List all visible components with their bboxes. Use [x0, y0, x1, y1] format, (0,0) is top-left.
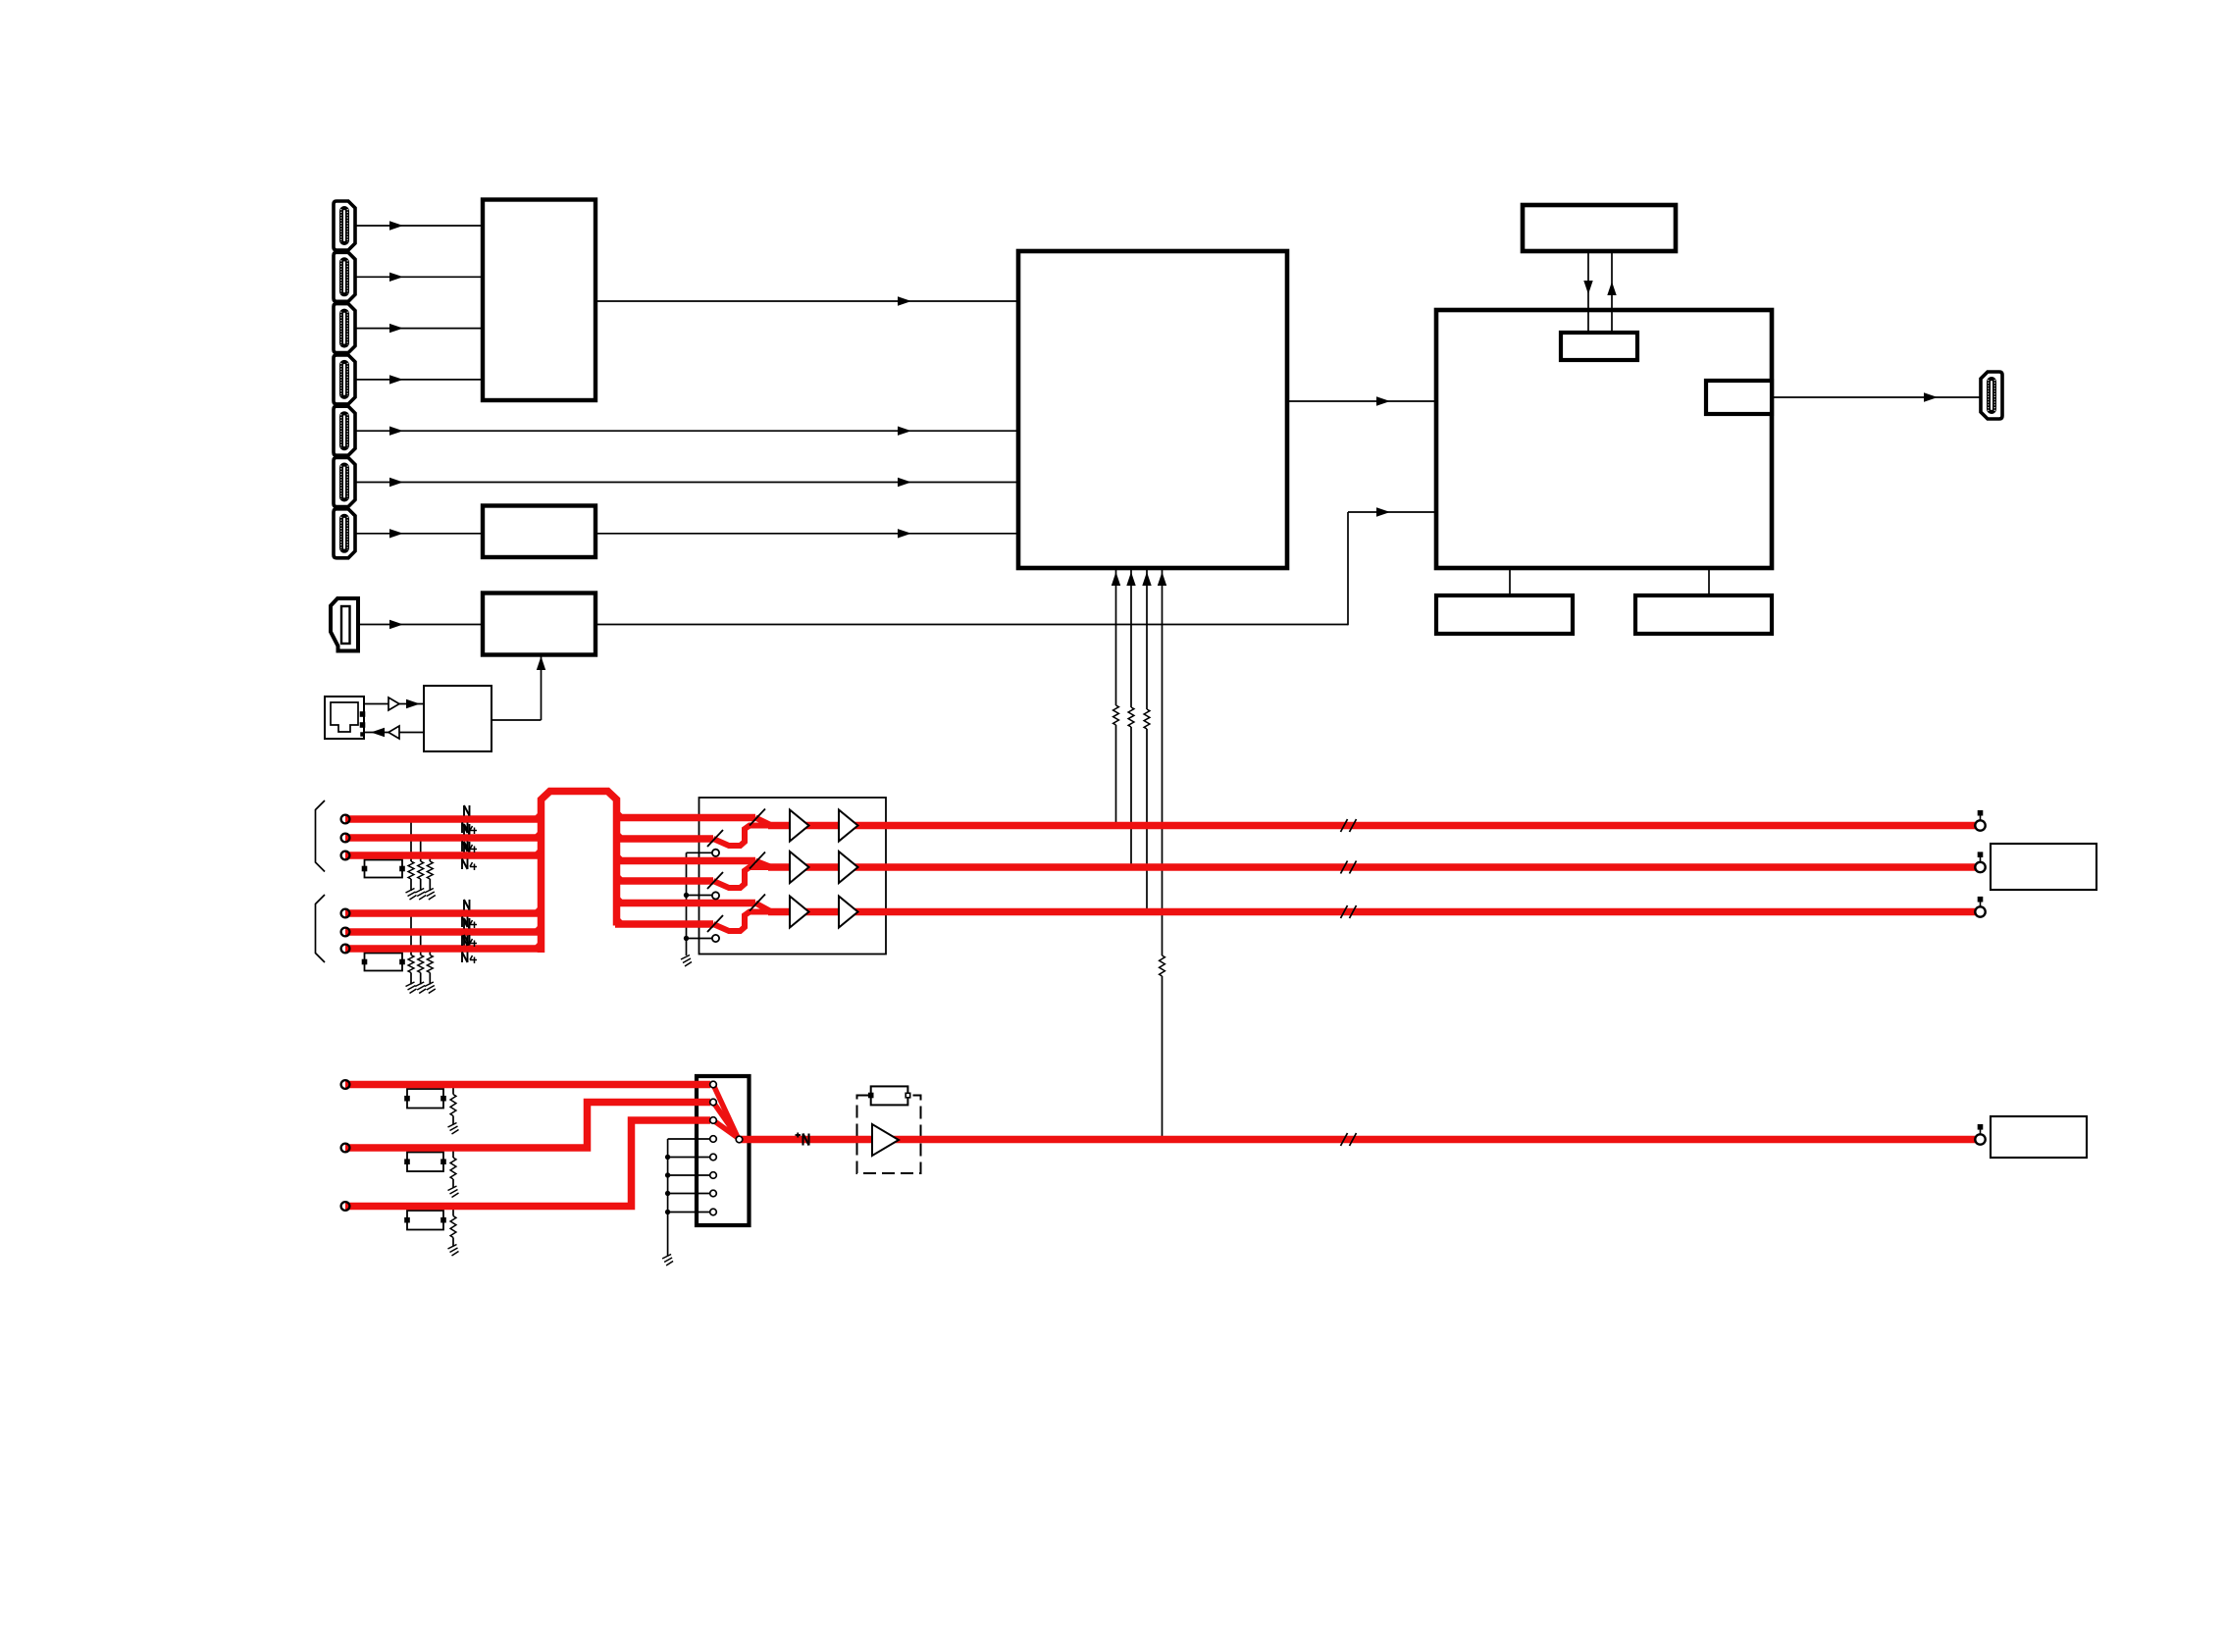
interface sub-block inside U4: [1561, 333, 1637, 360]
ferrite marks on input lines: [463, 805, 465, 816]
buffer U7b: [388, 726, 399, 739]
main video processor U3: [1018, 251, 1287, 568]
panel controller U4: [1436, 310, 1772, 568]
wire HDMI CN5 to block: [355, 430, 1018, 432]
wire U6 to buffer: [399, 732, 424, 734]
red output line (lower): [740, 1136, 1976, 1144]
red bus outputs right: [615, 814, 755, 822]
memory MEM1: [1436, 595, 1573, 634]
CN11 signal pin 2: [710, 1099, 717, 1106]
test point TP2: [1975, 862, 1985, 872]
buffer array box U8: [699, 798, 887, 955]
equalizer block U2: [483, 506, 595, 558]
CN11 ground pin 1: [710, 1136, 717, 1143]
termination cluster group2 (FB2,R8-R10): [365, 954, 403, 971]
HDMI connector CN8: [331, 598, 358, 651]
wire U4 to CN9: [1772, 396, 1981, 398]
memory MEM2: [1635, 595, 1772, 634]
red switch SW1 contacts: [755, 818, 772, 826]
HDMI connector CN2: [334, 252, 355, 301]
ferrite mark lower line: [796, 1134, 802, 1136]
test point TP3: [1975, 906, 1985, 916]
buffer triangle U9: [872, 1124, 899, 1156]
CN11 ground pin 4: [710, 1190, 717, 1197]
CN11 signal pin 3: [710, 1117, 717, 1124]
group bracket 2: [316, 895, 326, 962]
input terminal circle 3: [341, 852, 350, 860]
lower input terminal circle 2: [341, 1144, 350, 1153]
lower termination cluster 2 (FB,R): [407, 1153, 443, 1172]
driver IC U9 dashed box with series FB: [857, 1096, 921, 1174]
termination cluster group1 (FB1,R5-R7): [365, 860, 403, 878]
red pole line 3 to test point: [768, 908, 1976, 916]
red wire lower input 2: [345, 1103, 710, 1149]
HDMI receiver block U5: [483, 594, 595, 655]
cable break mark lower: [1341, 1133, 1348, 1146]
buffer pair 2: [790, 852, 809, 883]
CN11 ground pin 3: [710, 1172, 717, 1179]
input terminal circle 4: [341, 909, 350, 918]
HDMI connector CN1: [334, 201, 355, 250]
switch throw contact 2: [712, 892, 719, 899]
wire HDMI CN1 to block: [355, 225, 483, 227]
wire buffer to CN10: [364, 732, 388, 734]
test point TP4: [1975, 1134, 1985, 1144]
CN11 ground pins bus: [667, 1139, 669, 1256]
switch throw contact 1: [712, 850, 719, 856]
wire U4 to X1 (up): [1611, 251, 1613, 333]
wire/resistor R1 from U3 bottom: [1115, 568, 1117, 705]
red switch SW3 contacts: [755, 903, 772, 912]
wire U5 output to U4: [595, 624, 1348, 626]
HDMI connector CN5: [334, 406, 355, 455]
wire/resistor R2 from U3 bottom: [1130, 568, 1132, 707]
wire/resistor R3 from U3 bottom: [1146, 568, 1148, 709]
CN11 signal pin 1: [710, 1081, 717, 1088]
buffer pair 1: [790, 810, 809, 842]
wire HDMI CN3 to block: [355, 328, 483, 330]
wire U6 to U5: [492, 719, 542, 721]
switch ground bus: [686, 852, 688, 955]
red wire lower input 3: [345, 1120, 710, 1207]
wire stub U4 to MEM1: [1509, 568, 1511, 595]
wire U1 output to U3: [595, 300, 1018, 302]
CN11 ground pin 5: [710, 1209, 717, 1215]
wire HDMI CN2 to block: [355, 276, 483, 278]
buffer U7a: [388, 697, 399, 710]
red wire input line 4: [345, 909, 543, 917]
HDMI connector CN6: [334, 458, 355, 507]
wire buffer to U6: [399, 703, 424, 705]
red pole line 2 to test point: [768, 863, 1976, 871]
group bracket 1: [316, 800, 326, 872]
HDMI switch block U1: [483, 200, 595, 401]
wire CN8 to U5: [358, 624, 483, 626]
wire HDMI CN4 to block: [355, 379, 483, 381]
output port sub-block of U4: [1706, 381, 1772, 414]
lower input terminal circle 1: [341, 1080, 350, 1089]
red wire input line 3: [345, 852, 543, 859]
HDMI connector CN7: [334, 509, 355, 558]
red pole line 1 to test point: [768, 822, 1976, 830]
control connector CN10: [325, 697, 364, 739]
red wire input line 6: [345, 945, 543, 953]
ground (CN11): [662, 1255, 671, 1260]
red bus joints left: [536, 813, 542, 819]
lower termination cluster 3 (FB,R): [407, 1211, 443, 1230]
cable break mark 3: [1341, 905, 1348, 918]
wire HDMI CN7 to block: [355, 533, 483, 535]
cable break mark 2: [1341, 861, 1348, 874]
wire CN10 to buffer: [364, 703, 388, 705]
AV connector CN11: [697, 1076, 750, 1225]
test point TP1: [1975, 820, 1985, 830]
red wire lower input 1: [345, 1081, 710, 1089]
red wire input line 2: [345, 834, 543, 842]
memory block X1 (top): [1523, 205, 1676, 251]
lower termination cluster 1 (FB,R): [407, 1089, 443, 1109]
HDMI connector CN4: [334, 355, 355, 404]
lower input terminal circle 3: [341, 1202, 350, 1211]
input terminal circle 5: [341, 928, 350, 937]
label box (upper right): [1991, 844, 2096, 890]
wire stub U4 to MEM2: [1708, 568, 1710, 595]
buffer pair 3: [790, 897, 809, 928]
cable break mark 1: [1341, 819, 1348, 832]
CN11 common pin: [736, 1136, 743, 1143]
CN11 ground pin 2: [710, 1154, 717, 1161]
red bus crossover: [542, 792, 617, 954]
label box (lower right): [1991, 1116, 2087, 1158]
wire U3 output to U4: [1287, 400, 1436, 402]
wire/resistor R4 from U3 bottom: [1162, 568, 1164, 955]
wire HDMI CN6 to block: [355, 482, 1018, 484]
input terminal circle 6: [341, 945, 350, 954]
red wire input line 1: [345, 815, 543, 823]
LVDS output connector CN9: [1981, 372, 2002, 419]
input terminal circle 1: [341, 815, 350, 824]
red wire input line 5: [345, 928, 543, 936]
input terminal circle 2: [341, 834, 350, 843]
switch lever slashes: [750, 809, 765, 826]
red switch SW2 contacts: [755, 861, 772, 868]
wire X1 to U4 (down): [1587, 251, 1589, 333]
wire U2 output to U3: [595, 533, 1018, 535]
switch throw contact 3: [712, 935, 719, 942]
CEC interface block U6: [424, 686, 492, 751]
red fan to common pin: [713, 1085, 738, 1138]
ground (switch bus): [681, 955, 690, 960]
HDMI connector CN3: [334, 304, 355, 353]
